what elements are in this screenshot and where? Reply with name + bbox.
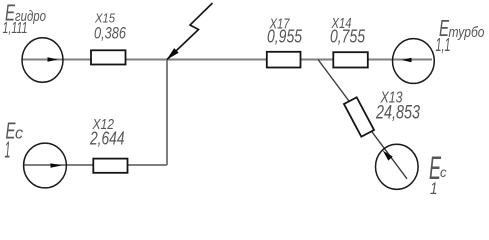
svg-text:1,1: 1,1 bbox=[436, 35, 451, 55]
svg-text:X15: X15 bbox=[94, 11, 116, 26]
svg-text:1,111: 1,111 bbox=[3, 20, 28, 37]
svg-text:c: c bbox=[440, 164, 447, 180]
svg-text:0,955: 0,955 bbox=[267, 26, 303, 46]
svg-text:турбо: турбо bbox=[449, 24, 485, 41]
svg-text:0,386: 0,386 bbox=[94, 25, 127, 43]
svg-text:1: 1 bbox=[430, 179, 438, 198]
svg-text:24,853: 24,853 bbox=[375, 102, 420, 124]
svg-text:0,755: 0,755 bbox=[330, 26, 366, 46]
svg-text:2,644: 2,644 bbox=[89, 128, 124, 149]
svg-text:1: 1 bbox=[5, 137, 11, 163]
svg-text:c: c bbox=[15, 125, 24, 143]
